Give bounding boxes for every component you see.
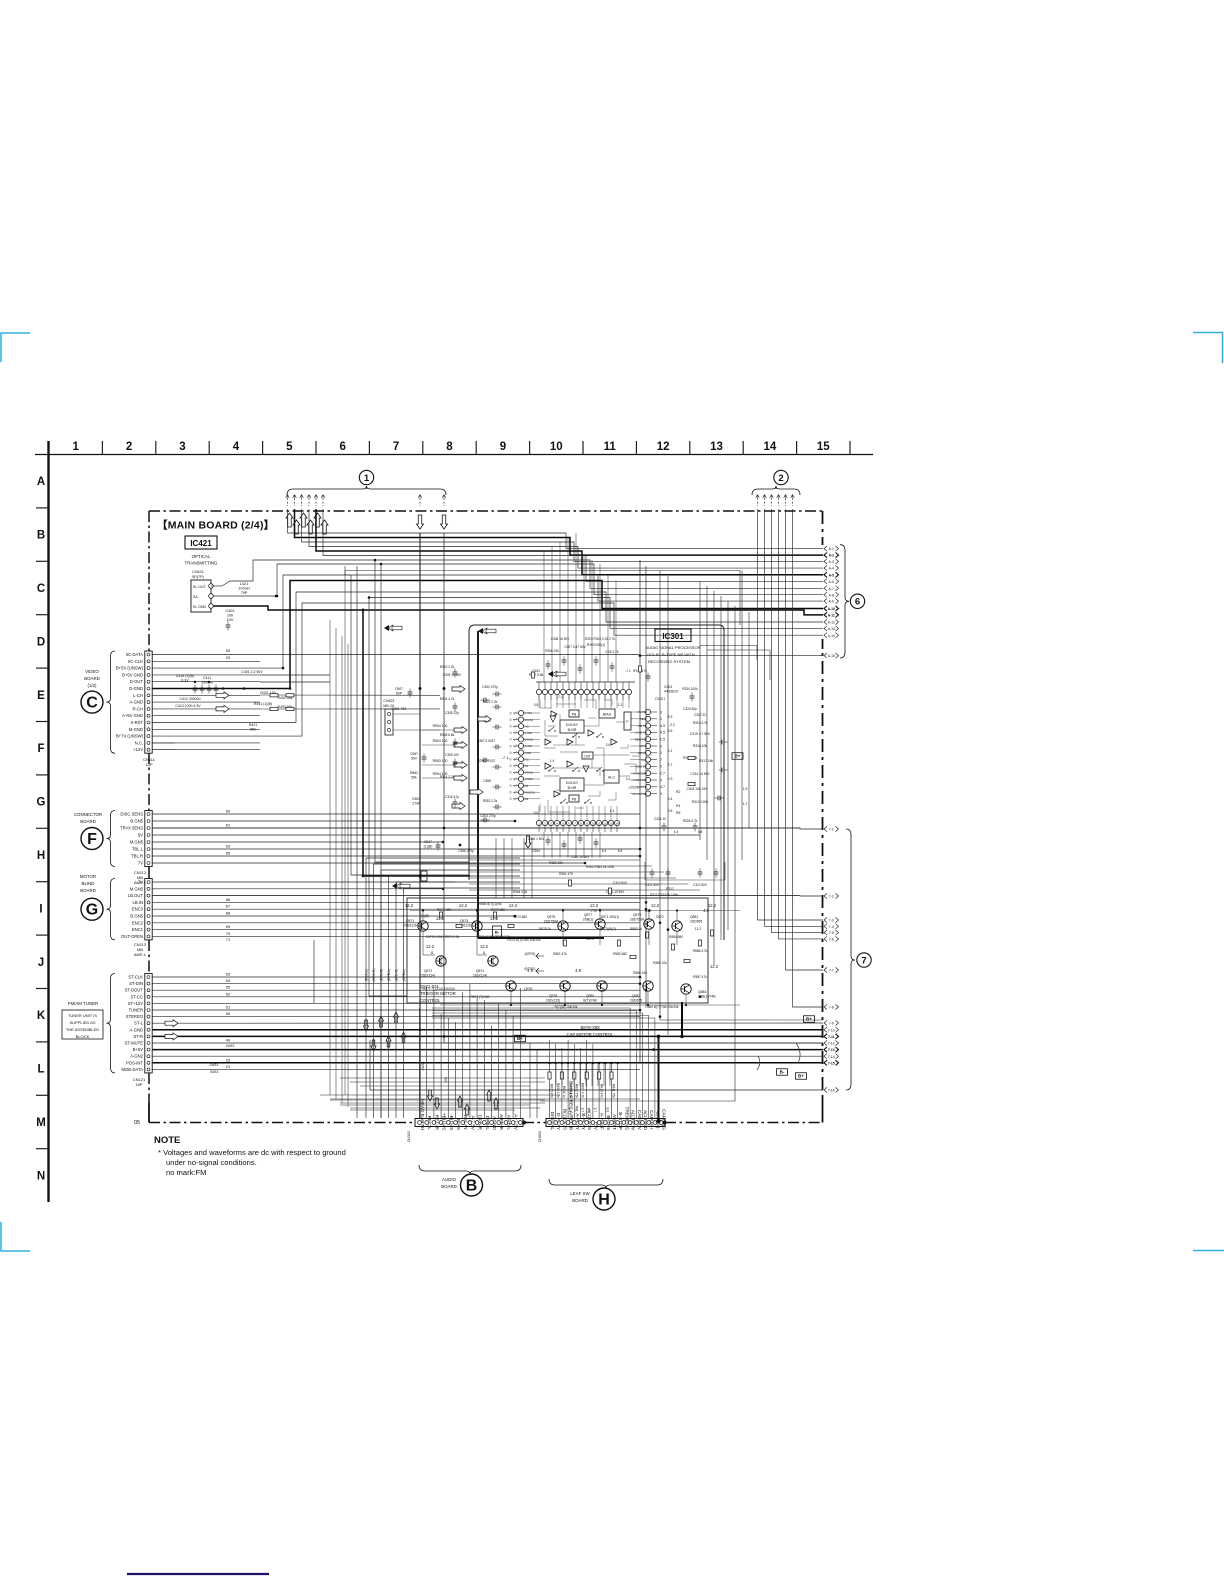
svg-text:Q575: Q575 [547, 915, 555, 919]
svg-text:1.9: 1.9 [743, 787, 748, 791]
svg-text:R4: R4 [676, 804, 680, 808]
svg-text:7-5: 7-5 [829, 931, 834, 935]
svg-text:A-13: A-13 [828, 627, 835, 631]
svg-text:C368: C368 [483, 779, 491, 783]
svg-text:R574 680: R574 680 [513, 915, 527, 919]
svg-text:D-GND: D-GND [129, 686, 143, 691]
svg-text:2: 2 [126, 441, 132, 453]
wire K ST-R to 7-11 thick [152, 1035, 823, 1037]
svg-text:0: 0 [510, 731, 512, 735]
svg-text:Q571: Q571 [406, 919, 414, 923]
footer rule [127, 1573, 269, 1575]
svg-text:3.1: 3.1 [626, 777, 631, 781]
svg-text:TBL.R: TBL.R [131, 854, 143, 859]
grid ruler column ticks [101, 441, 103, 455]
svg-text:7-11: 7-11 [828, 1035, 835, 1039]
svg-text:R5: R5 [676, 811, 680, 815]
wire bundle bottom mesh [340, 1077, 545, 1079]
crop mark top-left [1, 333, 30, 362]
svg-text:AUDIO: AUDIO [442, 1177, 456, 1182]
svg-text:R312: R312 [666, 887, 674, 891]
svg-text:CAP(M)G: CAP(M)G [661, 1109, 667, 1130]
ic IC301 left pin hatch [514, 712, 517, 715]
board ref circle C [81, 691, 103, 713]
svg-text:M.GN5: M.GN5 [130, 886, 144, 891]
svg-text:54: 54 [226, 978, 231, 983]
svg-text:TBL.L: TBL.L [132, 847, 144, 852]
svg-text:4.9: 4.9 [668, 715, 673, 719]
svg-text:60: 60 [226, 809, 231, 814]
svg-text:7V: 7V [138, 861, 143, 866]
svg-text:7: 7 [393, 441, 399, 453]
svg-text:R352 2.2k: R352 2.2k [483, 799, 498, 803]
svg-text:A-9: A-9 [829, 600, 834, 604]
svg-text:R607 4.7k: R607 4.7k [581, 1083, 585, 1098]
transistor Q574 [488, 956, 498, 966]
svg-text:11: 11 [430, 951, 434, 955]
svg-text:C307 0.47 50V: C307 0.47 50V [564, 645, 586, 649]
wire C pin1 to A-15 [152, 655, 823, 656]
svg-text:DPB-R: DPB-R [477, 1115, 483, 1130]
svg-text:R314 2.2k: R314 2.2k [440, 775, 455, 779]
svg-text:C318 1: C318 1 [655, 697, 666, 701]
svg-text:0: 0 [510, 718, 512, 722]
tuner note box [62, 1010, 103, 1039]
svg-text:270k: 270k [412, 802, 420, 806]
svg-text:A-7.5V: A-7.5V [469, 1115, 475, 1130]
svg-text:0.8: 0.8 [534, 703, 539, 707]
svg-text:C308 16 50V: C308 16 50V [551, 637, 570, 641]
wire C pin3 riser to A-9 [152, 575, 823, 668]
svg-text:CN601: CN601 [538, 1131, 542, 1142]
svg-text:R584 680: R584 680 [669, 935, 683, 939]
svg-text:61: 61 [226, 823, 231, 828]
svg-text:TRAY.SENS: TRAY.SENS [120, 826, 143, 831]
svg-text:B-: B- [495, 930, 500, 935]
power label B+ right lower [796, 1073, 807, 1080]
svg-text:DOLBY: DOLBY [566, 781, 579, 785]
svg-text:PB: PB [572, 797, 577, 801]
transistor Q573 [472, 921, 482, 931]
svg-text:A-1: A-1 [829, 547, 834, 551]
svg-text:X-RST: X-RST [130, 720, 143, 725]
svg-text:2SB(1): 2SB(1) [583, 917, 594, 921]
svg-text:Q582: Q582 [632, 994, 640, 998]
svg-text:AMP-L: AMP-L [134, 952, 147, 957]
svg-text:ST-DIN: ST-DIN [129, 981, 143, 986]
capacitor cluster bottom of IC301 section [650, 871, 655, 873]
board ref circle F [81, 828, 103, 850]
svg-text:no mark:FM: no mark:FM [166, 1168, 207, 1177]
svg-text:C574 0.0047: C574 0.0047 [478, 935, 496, 939]
svg-text:D572: D572 [656, 915, 664, 919]
svg-text:13P: 13P [145, 762, 152, 767]
svg-text:R503 100: R503 100 [433, 739, 448, 743]
svg-text:B+: B+ [806, 1017, 812, 1022]
leaf sw ladder risers [549, 1040, 551, 1063]
svg-text:B-: B- [780, 1070, 785, 1075]
svg-text:B: B [466, 1178, 478, 1195]
svg-text:9.7: 9.7 [581, 1108, 585, 1113]
svg-text:14: 14 [615, 822, 619, 826]
svg-text:C305 22p: C305 22p [445, 711, 459, 715]
ic IC301 bottom pin row [536, 820, 541, 825]
C connector stub wires [152, 660, 260, 662]
svg-text:1.9: 1.9 [568, 1108, 572, 1113]
power label PB mid [421, 871, 427, 881]
svg-text:D-OUT: D-OUT [130, 679, 144, 684]
svg-text:12.2: 12.2 [651, 903, 660, 908]
svg-text:5V: 5V [138, 833, 143, 838]
svg-text:0.1: 0.1 [668, 749, 673, 753]
svg-text:A+7.5V: A+7.5V [513, 1114, 519, 1131]
wire IC421 pin3 to A-11 thick [213, 606, 823, 615]
audio feed bundle arrows [364, 1020, 369, 1031]
svg-text:G: G [37, 797, 46, 809]
svg-text:B(T)/74B: B(T)/74B [583, 998, 597, 1002]
svg-text:IIC-DATA: IIC-DATA [126, 652, 143, 657]
svg-text:R578 1k: R578 1k [539, 927, 551, 931]
svg-text:R8L: R8L [574, 1106, 578, 1112]
riser corners to border [700, 646, 757, 661]
svg-text:63: 63 [226, 844, 231, 849]
svg-text:ENC1: ENC1 [132, 927, 144, 932]
svg-text:2SD655: 2SD655 [630, 998, 642, 1002]
svg-text:B+: B+ [798, 1074, 804, 1079]
svg-text:A-PLAY: A-PLAY [574, 1113, 580, 1131]
svg-text:15: 15 [817, 441, 830, 453]
wire K B+5V to 7-13 thick [152, 1049, 823, 1051]
svg-text:0: 0 [510, 764, 512, 768]
svg-text:【MAIN BOARD (2/4)】: 【MAIN BOARD (2/4)】 [157, 519, 274, 532]
svg-text:DPB-L: DPB-L [484, 1116, 490, 1130]
svg-text:R575 2.2k: R575 2.2k [445, 935, 460, 939]
svg-text:R574 R(T)/169 10k/10k: R574 R(T)/169 10k/10k [507, 938, 541, 942]
svg-text:ALC: ALC [608, 776, 615, 780]
svg-text:A+5V GND: A+5V GND [122, 713, 143, 718]
svg-text:53: 53 [226, 972, 231, 977]
svg-text:R606 4.7k: R606 4.7k [556, 1083, 560, 1098]
svg-text:STEREO: STEREO [126, 1014, 144, 1019]
connector ref 6 arrows A-1..A-15 [824, 546, 827, 551]
svg-text:R605 47k: R605 47k [550, 1084, 554, 1098]
svg-text:R421: R421 [249, 723, 257, 727]
svg-text:0.4: 0.4 [668, 797, 673, 801]
ic IC301 bias block [599, 709, 615, 718]
svg-text:K: K [37, 1010, 46, 1022]
svg-text:JW32: JW32 [226, 1044, 235, 1048]
svg-text:6: 6 [339, 441, 345, 453]
svg-text:ENC2: ENC2 [132, 920, 144, 925]
connector ref 1 pin arrows [286, 495, 290, 499]
left pointing arrow row I [392, 883, 397, 889]
svg-text:B-GN5: B-GN5 [605, 1115, 611, 1130]
svg-text:C320 82p: C320 82p [683, 707, 697, 711]
svg-text:R320 100k: R320 100k [682, 687, 698, 691]
svg-text:0: 0 [510, 751, 512, 755]
svg-text:DOLBY B-TYPE NR WITH: DOLBY B-TYPE NR WITH [647, 652, 694, 657]
svg-text:B: B [37, 530, 45, 542]
svg-text:BIAS: BIAS [603, 713, 612, 717]
svg-text:6.3V: 6.3V [181, 678, 189, 682]
svg-text:ENC3: ENC3 [132, 907, 144, 912]
svg-text:MOB-DATA: MOB-DATA [122, 1067, 144, 1072]
svg-text:55k: 55k [411, 776, 417, 780]
svg-text:B+5V: B+5V [133, 1047, 144, 1052]
transistor Q572 [436, 956, 446, 966]
svg-text:C402: C402 [225, 609, 234, 613]
power label B+ right of IC301 [732, 753, 743, 760]
ic IC301 pb blocks [569, 710, 579, 717]
svg-text:B(1)23/75: B(1)23/75 [561, 1109, 567, 1130]
bottom area verticals [529, 1043, 531, 1118]
svg-text:52: 52 [226, 991, 231, 996]
wire bundle left mesh verticals [329, 620, 331, 1095]
board group brace G [107, 879, 116, 940]
svg-text:(BTRG): (BTRG) [525, 967, 536, 971]
svg-text:Q580: Q580 [586, 994, 594, 998]
svg-text:0: 0 [510, 758, 512, 762]
svg-text:R588 4.7k: R588 4.7k [693, 949, 708, 953]
svg-text:12.2: 12.2 [426, 944, 435, 949]
connector CN112 strip [145, 811, 152, 867]
svg-text:A5W8T: A5W8T [611, 1114, 617, 1130]
wire K A-GND to 7-10 thick [152, 1029, 823, 1031]
svg-text:1.7: 1.7 [593, 1108, 597, 1113]
svg-text:PB: PB [572, 712, 577, 716]
svg-text:13: 13 [609, 822, 613, 826]
svg-text:C367 0.0047: C367 0.0047 [477, 739, 495, 743]
left pointing arrows row D [384, 625, 389, 631]
svg-text:ST-L: ST-L [134, 1021, 144, 1026]
wire K POS-INT to 7-15 thick [152, 1062, 823, 1064]
wire K A-GN2 to 7-14 [152, 1055, 823, 1057]
wire G LB.OUT to 7-2 [152, 895, 823, 897]
svg-text:ST-CLK: ST-CLK [128, 975, 143, 980]
svg-text:12.2: 12.2 [509, 903, 518, 908]
power label B+ near cap motor [515, 1035, 526, 1042]
svg-text:2.7: 2.7 [668, 763, 673, 767]
leaf sw right feeds [432, 1008, 630, 1119]
connector CN421 body [191, 580, 211, 612]
svg-text:D-PLAY: D-PLAY [555, 1113, 561, 1131]
svg-text:C575: C575 [586, 937, 594, 941]
svg-text:TUNER UNIT IS: TUNER UNIT IS [68, 1013, 97, 1018]
transistor Q582 [643, 981, 653, 991]
svg-text:R562: R562 [410, 771, 418, 775]
svg-text:A(1)FWD: A(1)FWD [642, 1110, 648, 1131]
trigger motor section box [407, 898, 708, 1003]
ic IC301 amplifier triangles [551, 711, 557, 717]
transistor Q578 [560, 981, 570, 991]
svg-text:A-GND: A-GND [130, 700, 144, 705]
svg-text:7-6: 7-6 [829, 938, 834, 942]
svg-text:R362 470: R362 470 [559, 872, 573, 876]
K wire arrows [165, 1020, 178, 1027]
wire bundle right of IC301 [727, 601, 729, 930]
svg-text:C354: C354 [532, 849, 540, 853]
svg-text:F: F [87, 831, 97, 848]
svg-text:A-HALF: A-HALF [599, 1113, 605, 1130]
wire C pin13 riser to A-14 [152, 603, 823, 736]
connector CN301 strip [415, 1119, 523, 1127]
svg-text:0.5: 0.5 [668, 809, 673, 813]
svg-text:R364 2.2k: R364 2.2k [513, 890, 528, 894]
svg-text:C311 50V: C311 50V [645, 883, 660, 887]
junction dots [639, 654, 642, 657]
wire riser to A-13 [369, 598, 823, 629]
board group brace C [107, 651, 116, 753]
svg-text:LEAF SW: LEAF SW [570, 1191, 590, 1196]
connector CN112 pins [147, 813, 150, 816]
power label B- right lower [777, 1069, 788, 1076]
ic IC301 switch marks [549, 727, 554, 731]
connector ref 7 bracket and circle [846, 829, 855, 1090]
svg-text:A-12: A-12 [828, 621, 835, 625]
wire nest ref1 to A1-A6 [288, 509, 824, 549]
G connector stub wires [152, 881, 455, 883]
svg-text:C: C [37, 583, 45, 595]
svg-text:L421: L421 [240, 582, 248, 586]
svg-text:C362 0.022: C362 0.022 [479, 759, 496, 763]
svg-text:(1)(B): (1)(B) [424, 845, 433, 849]
capacitor cluster above IC301 [543, 551, 545, 682]
svg-text:C563: C563 [412, 797, 420, 801]
svg-text:JW33: JW33 [210, 1070, 219, 1074]
svg-text:B-PLAY: B-PLAY [580, 1113, 586, 1131]
wire K ST-L to 7-9 [152, 1022, 823, 1024]
svg-text:100uH: 100uH [238, 587, 249, 591]
svg-text:1.7: 1.7 [743, 802, 748, 806]
svg-text:4433619: 4433619 [664, 690, 678, 694]
svg-text:SUPPLIED AS: SUPPLIED AS [69, 1020, 95, 1025]
svg-text:B+5V GND: B+5V GND [122, 672, 143, 677]
svg-text:1: 1 [72, 441, 79, 453]
signal arrow upper [452, 686, 465, 693]
leaf sw resistor ladder [550, 1062, 681, 1064]
svg-text:33000u: 33000u [201, 680, 213, 684]
svg-text:A-10: A-10 [828, 607, 835, 611]
svg-text:E: E [37, 690, 45, 702]
svg-text:12.2: 12.2 [405, 903, 414, 908]
svg-text:CN521: CN521 [383, 699, 394, 703]
crop mark bottom-left [1, 1222, 30, 1251]
svg-text:IC301: IC301 [662, 632, 684, 641]
svg-text:A-3: A-3 [829, 560, 834, 564]
svg-text:LB.IN: LB.IN [133, 900, 143, 905]
svg-text:R315 4.7k: R315 4.7k [693, 721, 708, 725]
trigger arrows ATRG BTRG [536, 953, 544, 959]
svg-text:A-GN2: A-GN2 [130, 1054, 143, 1059]
svg-text:OPTICAL: OPTICAL [192, 554, 211, 559]
signal arrows into IC301 [454, 727, 467, 734]
wire MOB-DATA stub [152, 1068, 640, 1070]
svg-text:R303 R30(1): R303 R30(1) [587, 643, 605, 647]
svg-text:A-5: A-5 [829, 573, 835, 577]
svg-text:8.8: 8.8 [605, 1108, 609, 1113]
svg-text:CAP(M)V: CAP(M)V [636, 1110, 642, 1131]
svg-text:0: 0 [510, 711, 512, 715]
svg-text:C304 100 16V: C304 100 16V [686, 787, 708, 791]
connector CN301 pins [418, 1121, 422, 1125]
svg-text:A(1)23/75: A(1)23/75 [586, 1109, 592, 1130]
svg-text:0: 0 [510, 738, 512, 742]
connector ref 7 arrows 7-1..7-16 [824, 826, 827, 831]
svg-text:FM/AM TUNER: FM/AM TUNER [68, 1001, 98, 1006]
svg-text:B-NR: B-NR [568, 728, 577, 732]
svg-text:6.8: 6.8 [618, 849, 623, 853]
svg-text:4: 4 [233, 441, 240, 453]
svg-text:DOLBY: DOLBY [566, 723, 579, 727]
svg-text:12: 12 [657, 441, 670, 453]
svg-text:Q578: Q578 [549, 994, 557, 998]
svg-text:C356 270p: C356 270p [458, 849, 474, 853]
svg-text:BIAS: BIAS [455, 1119, 461, 1130]
svg-text:A-14: A-14 [828, 634, 835, 638]
svg-text:R604 1k: R604 1k [562, 1086, 566, 1099]
svg-text:D: D [37, 636, 45, 648]
svg-text:68: 68 [226, 911, 231, 916]
ic IC421 label [185, 536, 217, 549]
svg-text:2SD655: 2SD655 [690, 919, 702, 923]
main board border bottom [149, 1122, 415, 1124]
svg-text:0: 0 [510, 771, 512, 775]
svg-text:70: 70 [226, 931, 231, 936]
svg-text:7-12: 7-12 [828, 1042, 835, 1046]
svg-text:50V: 50V [411, 757, 418, 761]
trunk x444 [444, 533, 823, 1043]
svg-text:-7.1: -7.1 [625, 669, 631, 673]
svg-text:M.GN5: M.GN5 [130, 840, 144, 845]
svg-text:F: F [37, 743, 44, 755]
svg-text:A: A [37, 476, 45, 488]
svg-text:11: 11 [598, 822, 601, 826]
transistor Q584 [681, 984, 691, 994]
svg-text:11: 11 [482, 951, 486, 955]
svg-text:R580 680: R580 680 [613, 952, 627, 956]
svg-text:C401 2.2 50V: C401 2.2 50V [241, 670, 263, 674]
svg-text:10: 10 [550, 441, 563, 453]
board group brace F [107, 811, 116, 867]
svg-text:(1)(B): (1)(B) [421, 914, 429, 918]
svg-text:R306 22k: R306 22k [545, 649, 559, 653]
grid ruler row ticks [36, 507, 49, 509]
F connector stub wires [152, 813, 640, 815]
svg-text:2SD756A: 2SD756A [630, 917, 645, 921]
svg-text:4.5: 4.5 [587, 1108, 591, 1113]
cap motor thick feed wire [658, 1036, 660, 1121]
power label B+ right border [804, 1016, 815, 1023]
ic IC301 label [655, 629, 691, 642]
svg-text:12.2: 12.2 [708, 903, 717, 908]
phase link arcs [796, 1043, 800, 1063]
svg-text:7-2: 7-2 [829, 895, 834, 899]
svg-text:C313 50V: C313 50V [613, 881, 628, 885]
cap motor thick riser [681, 1002, 683, 1036]
wire ref2 bundle to 7-3..7-8 [758, 509, 824, 920]
K short wires [152, 976, 640, 978]
svg-text:14: 14 [764, 441, 777, 453]
svg-text:5P(7P): 5P(7P) [192, 575, 205, 579]
svg-text:R586 100: R586 100 [633, 971, 647, 975]
svg-text:53: 53 [226, 648, 231, 653]
svg-text:7-15: 7-15 [828, 1061, 835, 1065]
svg-text:VIDEO: VIDEO [85, 669, 99, 674]
svg-text:R573 680: R573 680 [491, 908, 505, 912]
audio board circle B [461, 1174, 483, 1196]
svg-text:B-STOP: B-STOP [617, 1112, 623, 1130]
svg-text:R326 4.7k: R326 4.7k [683, 819, 698, 823]
